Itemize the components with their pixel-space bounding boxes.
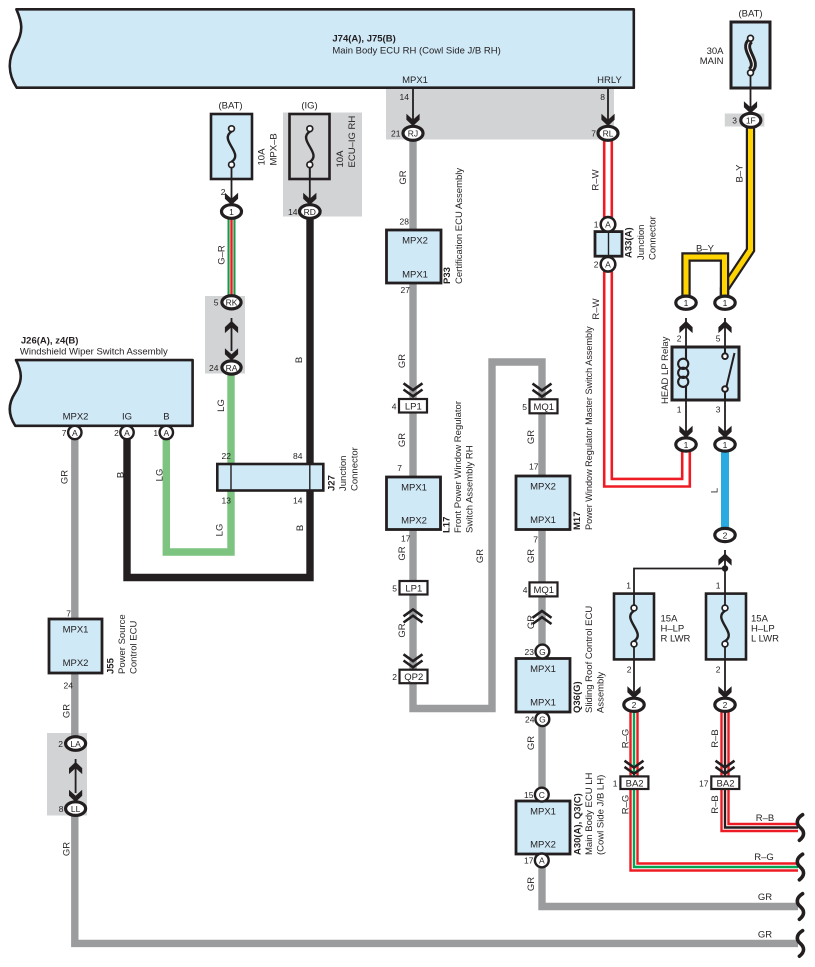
svg-text:15: 15 bbox=[524, 790, 534, 800]
svg-text:5: 5 bbox=[716, 334, 721, 344]
break symbol R-G bbox=[797, 854, 803, 880]
wire B J26 IG down right up to J27 pin 14 bbox=[127, 439, 310, 578]
pin number 8 ECU box bbox=[600, 92, 605, 102]
pin number 5 LP1 bbox=[392, 584, 397, 594]
svg-text:MPX1: MPX1 bbox=[401, 483, 427, 494]
wire LG J26 B down right up to J27 pin 13 bbox=[166, 439, 231, 552]
pin number 17 BA2 bbox=[699, 778, 709, 788]
wire label R-B upper bbox=[710, 729, 721, 747]
gray band behind 1F connector bbox=[725, 114, 765, 127]
pin number 17 M17 bbox=[529, 462, 539, 472]
wire label GR J26 bbox=[60, 470, 71, 484]
fuse 15A H-LP R LWR bbox=[614, 594, 654, 660]
wire label B-Y vertical bbox=[735, 164, 746, 183]
svg-text:RJ: RJ bbox=[408, 129, 418, 139]
link line RK to RA with arrows bbox=[225, 318, 238, 361]
wire GR A30 to right break bbox=[542, 867, 798, 907]
connector circle A bottom A33 bbox=[601, 257, 616, 272]
svg-text:R–W: R–W bbox=[591, 298, 602, 319]
pin line relay 3 down to connector 1 bbox=[718, 400, 731, 438]
connector oval 1 left above relay bbox=[676, 296, 696, 309]
svg-text:L: L bbox=[710, 488, 721, 493]
svg-text:2: 2 bbox=[723, 700, 728, 710]
svg-text:R–W: R–W bbox=[591, 169, 602, 190]
svg-text:2: 2 bbox=[392, 672, 397, 682]
pin number 27 P33 bbox=[401, 285, 411, 295]
wire GR QP2 down right up to MQ1 5 bbox=[413, 362, 542, 709]
svg-text:24: 24 bbox=[64, 681, 74, 691]
svg-text:(Cowl Side J/B LH): (Cowl Side J/B LH) bbox=[596, 775, 607, 855]
component name J55 bbox=[106, 614, 140, 674]
svg-text:G–R: G–R bbox=[217, 245, 228, 265]
wire label GR LP1-QP2 bbox=[397, 623, 408, 637]
svg-text:13: 13 bbox=[222, 496, 232, 506]
relay coil bbox=[678, 347, 688, 400]
svg-text:MAIN: MAIN bbox=[700, 56, 724, 67]
connector circle A pin2 J26 bbox=[120, 426, 133, 439]
wire label R-W lower bbox=[591, 298, 602, 319]
component name M17 bbox=[572, 326, 594, 530]
svg-text:1: 1 bbox=[594, 220, 599, 230]
svg-text:Switch Assembly RH: Switch Assembly RH bbox=[465, 445, 476, 533]
junction dot bbox=[722, 565, 728, 571]
gray band behind RJ RL connectors bbox=[386, 87, 614, 140]
pin line 8 from ECU box to RL bbox=[601, 88, 614, 126]
wire GR MQ1 5 to M17 bbox=[538, 414, 545, 476]
wire label LG J26 bbox=[155, 469, 166, 482]
svg-text:5: 5 bbox=[522, 402, 527, 412]
svg-text:GR: GR bbox=[526, 877, 537, 891]
pin line 14 from ECU box to RJ bbox=[406, 88, 419, 126]
svg-text:8: 8 bbox=[600, 92, 605, 102]
pin number 1 relay bbox=[677, 405, 682, 415]
svg-text:(BAT): (BAT) bbox=[738, 9, 762, 20]
wire label B RD-J27 bbox=[294, 357, 305, 363]
svg-text:4: 4 bbox=[392, 402, 397, 412]
svg-text:22: 22 bbox=[222, 451, 232, 461]
component name Q36 bbox=[572, 606, 607, 713]
pin number 5 RK bbox=[214, 298, 219, 308]
break symbol R-B bbox=[797, 815, 803, 841]
gray band behind LA LL connectors bbox=[47, 733, 87, 816]
J27 junction connector bar bbox=[217, 464, 323, 491]
component name P33 bbox=[442, 168, 465, 284]
svg-text:R–G: R–G bbox=[621, 795, 632, 815]
wire label R-B horizontal bbox=[756, 813, 774, 824]
component name L17 bbox=[442, 401, 476, 533]
HEAD LP relay box bbox=[672, 347, 739, 400]
svg-text:MPX1: MPX1 bbox=[402, 270, 428, 281]
J55 Power Source Control ECU box bbox=[49, 619, 102, 673]
wire label GR J55-LA bbox=[62, 704, 73, 718]
svg-text:GR: GR bbox=[758, 930, 772, 941]
connector oval 1 below fuse MPX-B bbox=[222, 205, 242, 219]
svg-text:21: 21 bbox=[391, 129, 401, 139]
svg-text:GR: GR bbox=[526, 615, 537, 629]
svg-text:24: 24 bbox=[525, 715, 535, 725]
svg-text:28: 28 bbox=[400, 217, 410, 227]
wire label GR long vertical bbox=[475, 549, 486, 563]
svg-text:GR: GR bbox=[475, 549, 486, 563]
pin number 2 J26 IG bbox=[114, 428, 119, 438]
pin number 1 fuse HLP L bbox=[716, 581, 721, 591]
pin number 7 M17 bbox=[533, 535, 538, 545]
label (IG) fuse ECU-IG bbox=[301, 101, 317, 112]
svg-text:GR: GR bbox=[398, 170, 409, 184]
connector oval LA bbox=[66, 737, 86, 751]
svg-text:LG: LG bbox=[155, 469, 166, 482]
A30 Q3 Main Body ECU LH box bbox=[516, 801, 570, 854]
wire GR Q36 to A30 bbox=[538, 726, 545, 789]
svg-text:23: 23 bbox=[525, 647, 535, 657]
pin number 2 fuse HLP L bbox=[716, 665, 721, 675]
pin number 13 J27 bbox=[222, 496, 232, 506]
gray band behind IG fuse ECU-IG RH bbox=[283, 113, 362, 217]
svg-text:GR: GR bbox=[62, 842, 73, 856]
svg-text:RK: RK bbox=[226, 298, 238, 308]
svg-text:2: 2 bbox=[114, 428, 119, 438]
chevron and box BA2 pin 1 bbox=[620, 761, 648, 790]
connector circle G top Q36 bbox=[536, 645, 550, 659]
connector oval LL bbox=[66, 802, 86, 816]
pin number 17 A30 bbox=[524, 856, 534, 866]
pin number 2 A33 bbox=[594, 260, 599, 270]
svg-text:2: 2 bbox=[58, 739, 63, 749]
svg-text:2: 2 bbox=[594, 260, 599, 270]
svg-text:LP1: LP1 bbox=[405, 402, 422, 413]
wire branch to fuse HLP R LWR bbox=[634, 569, 725, 606]
A33 junction connector box bbox=[595, 232, 622, 257]
connector oval 2 below L wire bbox=[715, 528, 735, 541]
Q36 Sliding Roof Control ECU box bbox=[516, 659, 570, 713]
svg-text:Assembly: Assembly bbox=[596, 672, 607, 713]
wire G-R fuse MPX-B to RK bbox=[228, 218, 236, 296]
svg-text:Junction: Junction bbox=[338, 456, 349, 491]
svg-text:27: 27 bbox=[401, 285, 411, 295]
svg-text:Front Power Window Regulator: Front Power Window Regulator bbox=[453, 401, 464, 533]
svg-text:MPX1: MPX1 bbox=[530, 807, 556, 818]
wire GR M17 to MQ1 4 bbox=[538, 530, 545, 583]
svg-text:RD: RD bbox=[304, 207, 316, 217]
pin number 2 fuse HLP R bbox=[627, 665, 632, 675]
pin number 2 QP2 bbox=[392, 672, 397, 682]
wire label GR A30 bottom bbox=[526, 877, 537, 891]
wire label GR LP1-L17 bbox=[397, 433, 408, 447]
wire label LG RA-J27 bbox=[216, 399, 227, 412]
wire GR LL to bottom right break bbox=[75, 815, 798, 943]
wire label GR M17-MQ1 4 bbox=[526, 549, 537, 563]
svg-text:8: 8 bbox=[59, 804, 64, 814]
pin number 14 J27 bbox=[293, 496, 303, 506]
M17 Power Window Regulator Master Switch box bbox=[516, 476, 570, 530]
wire label G-R bbox=[217, 245, 228, 265]
connector oval 1F bbox=[741, 113, 761, 127]
svg-text:Control ECU: Control ECU bbox=[129, 621, 140, 674]
wire label R-W upper bbox=[591, 169, 602, 190]
svg-text:Junction: Junction bbox=[636, 225, 647, 260]
svg-text:14: 14 bbox=[293, 496, 303, 506]
component name A30 bbox=[573, 772, 607, 855]
pin number 84 J27 bbox=[293, 451, 303, 461]
svg-text:Sliding Roof Control ECU: Sliding Roof Control ECU bbox=[584, 606, 595, 713]
svg-text:17: 17 bbox=[524, 856, 534, 866]
pin line fuse MPX-B to connector 1 bbox=[225, 167, 238, 205]
chevron and box MQ1 pin 4 bbox=[530, 582, 558, 624]
wire L relay 3 to connector 2 bbox=[721, 451, 729, 529]
wire R-G BA2 to right break bbox=[634, 789, 798, 868]
svg-text:J27: J27 bbox=[327, 475, 338, 491]
svg-text:14: 14 bbox=[288, 207, 298, 217]
label (BAT) fuse 30A bbox=[738, 9, 762, 20]
svg-text:2: 2 bbox=[632, 700, 637, 710]
label 10A ECU-IG RH rotated bbox=[335, 116, 358, 168]
connector circle A bottom A30 bbox=[535, 854, 549, 868]
svg-text:14: 14 bbox=[400, 92, 410, 102]
svg-text:10A: 10A bbox=[335, 150, 346, 168]
svg-text:P33: P33 bbox=[442, 267, 453, 284]
pin line relay 5 up to connector 1 bbox=[718, 318, 731, 347]
svg-text:2: 2 bbox=[677, 334, 682, 344]
svg-text:Connector: Connector bbox=[350, 447, 361, 491]
svg-text:LG: LG bbox=[216, 399, 227, 412]
svg-text:17: 17 bbox=[401, 534, 411, 544]
svg-text:J26(A), z4(B): J26(A), z4(B) bbox=[21, 336, 79, 347]
pin number 24 Q36 bbox=[525, 715, 535, 725]
svg-text:MPX2: MPX2 bbox=[401, 516, 427, 527]
pin line fuse HLP L to connector 2 bbox=[718, 648, 731, 699]
svg-text:A: A bbox=[124, 428, 130, 438]
svg-text:LP1: LP1 bbox=[405, 584, 422, 595]
connector oval RA bbox=[222, 361, 241, 374]
connector oval RL bbox=[598, 126, 618, 140]
svg-text:MPX2: MPX2 bbox=[63, 412, 89, 423]
pin number 7 L17 bbox=[397, 463, 402, 473]
svg-text:HEAD LP Relay: HEAD LP Relay bbox=[660, 336, 671, 404]
svg-text:MPX2: MPX2 bbox=[530, 482, 556, 493]
svg-text:GR: GR bbox=[397, 623, 408, 637]
wire label GR MQ1-M17 bbox=[526, 430, 537, 444]
svg-text:L17: L17 bbox=[442, 517, 453, 533]
pin number 24 J55 bbox=[64, 681, 74, 691]
wire GR P33 to L17 through LP1 bbox=[409, 283, 416, 477]
connector circle A pin7 J26 bbox=[68, 426, 81, 439]
P33 Certification ECU box bbox=[387, 230, 442, 283]
svg-text:GR: GR bbox=[526, 736, 537, 750]
wire LG RA to J27 pin 22 bbox=[227, 374, 234, 464]
pin number 7 J55 bbox=[66, 609, 71, 619]
fuse 30A MAIN bbox=[731, 22, 770, 89]
fuse 10A ECU-IG RH bbox=[290, 114, 330, 180]
connector circle C top A30 bbox=[535, 788, 549, 802]
svg-text:B: B bbox=[163, 412, 169, 423]
label (BAT) fuse MPX-B bbox=[218, 101, 242, 112]
svg-text:R LWR: R LWR bbox=[661, 634, 691, 645]
pin number 28 P33 bbox=[400, 217, 410, 227]
label 10A MPX-B rotated bbox=[257, 133, 280, 165]
pin number 1 A33 bbox=[594, 220, 599, 230]
svg-text:IG: IG bbox=[122, 412, 132, 423]
component name J27 bbox=[327, 447, 361, 491]
svg-text:A30(A), Q3(C): A30(A), Q3(C) bbox=[573, 793, 584, 855]
svg-text:RA: RA bbox=[226, 363, 238, 373]
pin number 3 relay bbox=[716, 405, 721, 415]
svg-text:B: B bbox=[116, 472, 127, 478]
chevron and box LP1 pin 4 bbox=[399, 383, 427, 412]
component name A33 bbox=[624, 216, 659, 260]
svg-text:1: 1 bbox=[684, 440, 689, 450]
wire GR J55 to LA bbox=[71, 673, 78, 737]
svg-text:2: 2 bbox=[627, 665, 632, 675]
svg-text:Connector: Connector bbox=[648, 216, 659, 260]
svg-text:(BAT): (BAT) bbox=[218, 101, 242, 112]
pin number 22 J27 bbox=[222, 451, 232, 461]
connector oval RD bbox=[300, 205, 321, 219]
svg-text:R–G: R–G bbox=[754, 852, 774, 863]
svg-text:7: 7 bbox=[591, 129, 596, 139]
wire label R-B lower bbox=[710, 795, 721, 813]
pin number 1 BA2 bbox=[613, 778, 618, 788]
svg-text:1: 1 bbox=[229, 207, 234, 217]
wire label GR LL bottom bbox=[62, 842, 73, 856]
wire R-W RL to A33 bbox=[603, 140, 613, 217]
break symbol GR bottom bbox=[797, 931, 803, 957]
svg-text:Windshield Wiper Switch Assemb: Windshield Wiper Switch Assembly bbox=[20, 347, 168, 358]
svg-text:A: A bbox=[72, 428, 78, 438]
wiper switch box J26(A) z4(B) bbox=[10, 336, 193, 426]
wire GR MQ1 4 to Q36 G bbox=[538, 597, 545, 645]
pin number 4 LP1 bbox=[392, 402, 397, 412]
pin line fuse HLP R to connector 2 bbox=[627, 648, 640, 699]
svg-text:MPX1: MPX1 bbox=[63, 625, 89, 636]
pin number 7 J26 MPX2 bbox=[62, 428, 67, 438]
svg-text:1: 1 bbox=[684, 298, 689, 308]
svg-text:G: G bbox=[539, 715, 546, 725]
pin number 5 MQ1 bbox=[522, 402, 527, 412]
wire label B below J27 bbox=[295, 525, 306, 531]
svg-text:RL: RL bbox=[603, 129, 614, 139]
svg-text:7: 7 bbox=[66, 609, 71, 619]
svg-text:1: 1 bbox=[613, 778, 618, 788]
break symbol GR from A30 bbox=[797, 894, 803, 920]
pin number 4 MQ1 bbox=[523, 585, 528, 595]
pin number 15 A30 bbox=[524, 790, 534, 800]
svg-text:A33(A): A33(A) bbox=[624, 227, 635, 258]
svg-text:5: 5 bbox=[392, 584, 397, 594]
svg-text:GR: GR bbox=[526, 430, 537, 444]
connector oval 2 below fuse HLP L bbox=[715, 698, 735, 711]
svg-text:J74(A), J75(B): J74(A), J75(B) bbox=[332, 34, 395, 45]
svg-text:Certification ECU Assembly: Certification ECU Assembly bbox=[454, 168, 465, 284]
svg-text:GR: GR bbox=[397, 433, 408, 447]
connector circle A top A33 bbox=[601, 217, 616, 232]
svg-text:1: 1 bbox=[626, 581, 631, 591]
wire label L bbox=[710, 488, 721, 493]
wire label B-Y horizontal bbox=[696, 244, 715, 255]
svg-text:24: 24 bbox=[209, 363, 219, 373]
svg-text:1: 1 bbox=[677, 405, 682, 415]
svg-text:1F: 1F bbox=[746, 116, 756, 126]
svg-text:10A: 10A bbox=[257, 148, 268, 166]
connector oval 1 left below relay bbox=[676, 438, 696, 451]
svg-text:MQ1: MQ1 bbox=[534, 402, 555, 413]
wire label GR Q36-A30 bbox=[526, 736, 537, 750]
svg-text:GR: GR bbox=[397, 354, 408, 368]
wire R-W A33 to relay connector 1 bbox=[608, 272, 686, 483]
component name HEAD LP Relay bbox=[660, 336, 671, 404]
svg-text:GR: GR bbox=[526, 549, 537, 563]
svg-text:1: 1 bbox=[153, 428, 158, 438]
link line LA to LL with arrows bbox=[69, 759, 82, 802]
L17 Front Power Window Regulator Switch box bbox=[387, 477, 441, 530]
svg-text:MPX2: MPX2 bbox=[63, 658, 89, 669]
wire label GR horizontal 1 bbox=[758, 892, 772, 903]
pin number 2 relay bbox=[677, 334, 682, 344]
wire GR from RJ to P33 bbox=[409, 140, 416, 230]
pin number 5 relay bbox=[716, 334, 721, 344]
svg-text:R–B: R–B bbox=[710, 729, 721, 747]
svg-text:B–Y: B–Y bbox=[735, 164, 746, 183]
pin number 2 fuse MPX-B bbox=[221, 187, 226, 197]
pin number 17 L17 bbox=[401, 534, 411, 544]
svg-text:84: 84 bbox=[293, 451, 303, 461]
pin number 3 1F bbox=[732, 116, 737, 126]
wire label GR MQ1-Q36 bbox=[526, 615, 537, 629]
svg-text:2: 2 bbox=[716, 665, 721, 675]
svg-text:R–G: R–G bbox=[621, 729, 632, 749]
svg-text:G: G bbox=[539, 647, 546, 657]
svg-text:MQ1: MQ1 bbox=[534, 585, 555, 596]
pin number 14 RD bbox=[288, 207, 298, 217]
wire label GR RJ wire bbox=[398, 170, 409, 184]
label 15A H-LP R LWR bbox=[661, 614, 691, 645]
wire B-Y 1F down with diagonal to relay 1 right bbox=[725, 127, 751, 297]
svg-text:2: 2 bbox=[723, 530, 728, 540]
svg-text:Q36(G): Q36(G) bbox=[572, 681, 583, 713]
svg-text:MPX1: MPX1 bbox=[402, 75, 428, 86]
svg-text:3: 3 bbox=[716, 405, 721, 415]
ECU box J74(A) J75(B) Main Body ECU RH bbox=[10, 9, 634, 87]
wire R-G fuse HLP R to BA2 bbox=[629, 711, 638, 776]
pin number 21 RJ bbox=[391, 129, 401, 139]
pin number 14 ECU box bbox=[400, 92, 410, 102]
chevron and box MQ1 pin 5 bbox=[530, 384, 558, 414]
pin number 1 fuse HLP R bbox=[626, 581, 631, 591]
svg-text:B: B bbox=[294, 357, 305, 363]
svg-text:GR: GR bbox=[758, 892, 772, 903]
svg-text:LG: LG bbox=[215, 524, 226, 537]
svg-text:17: 17 bbox=[699, 778, 709, 788]
svg-text:MPX–B: MPX–B bbox=[269, 133, 280, 165]
pin number 1 J26 B bbox=[153, 428, 158, 438]
svg-text:7: 7 bbox=[533, 535, 538, 545]
wire label GR P33-LP1 bbox=[397, 354, 408, 368]
svg-text:(IG): (IG) bbox=[301, 101, 317, 112]
svg-text:MPX1: MPX1 bbox=[530, 664, 556, 675]
pin line fuse ECU-IG to RD bbox=[303, 167, 316, 205]
svg-text:LL: LL bbox=[71, 804, 81, 814]
svg-text:1: 1 bbox=[716, 581, 721, 591]
pin number 23 Q36 bbox=[525, 647, 535, 657]
wire label R-G upper bbox=[621, 729, 632, 749]
svg-text:ECU–IG RH: ECU–IG RH bbox=[347, 116, 358, 168]
svg-text:MPX1: MPX1 bbox=[530, 515, 556, 526]
svg-text:BA2: BA2 bbox=[717, 778, 735, 789]
svg-text:GR: GR bbox=[62, 704, 73, 718]
label 30A MAIN bbox=[700, 46, 724, 67]
svg-text:Main Body ECU LH: Main Body ECU LH bbox=[584, 772, 595, 855]
svg-text:1: 1 bbox=[723, 440, 728, 450]
svg-text:MPX2: MPX2 bbox=[402, 236, 428, 247]
